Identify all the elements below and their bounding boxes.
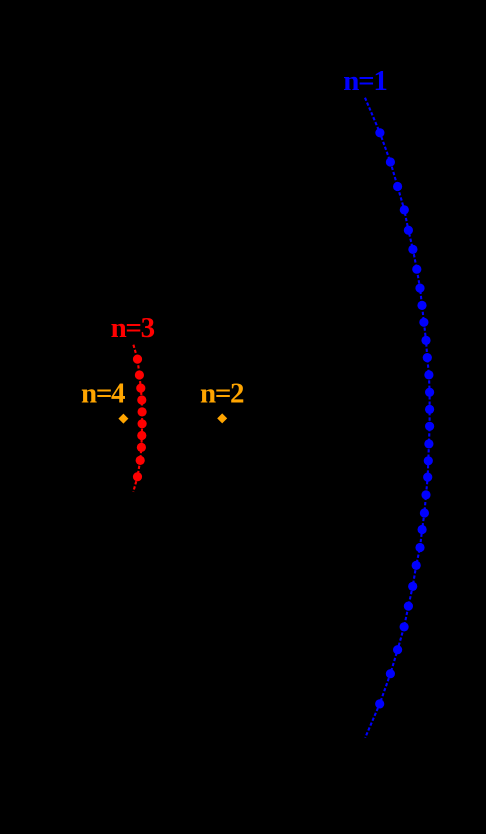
diamond marker n=4 — [118, 414, 128, 424]
diamond marker n=2 — [217, 413, 227, 423]
svg-text:n=4: n=4 — [81, 377, 125, 409]
curve n=3 point markers — [133, 355, 147, 482]
svg-text:n=1: n=1 — [343, 65, 386, 97]
curve n=3 dashed line — [133, 345, 142, 492]
svg-text:n=2: n=2 — [200, 377, 244, 409]
curve n=1 point markers — [375, 128, 434, 708]
svg-text:n=3: n=3 — [111, 312, 155, 344]
curve n=1 dashed line — [365, 98, 430, 738]
